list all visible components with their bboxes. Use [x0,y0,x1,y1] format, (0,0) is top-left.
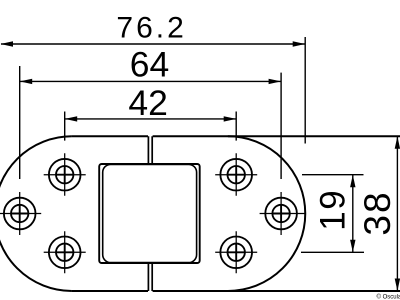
svg-text:© Osculati: © Osculati [377,294,400,300]
svg-text:42: 42 [128,83,168,123]
svg-text:19: 19 [314,189,353,231]
svg-text:64: 64 [130,45,170,85]
svg-text:76.2: 76.2 [116,11,186,44]
svg-text:38: 38 [357,190,398,235]
